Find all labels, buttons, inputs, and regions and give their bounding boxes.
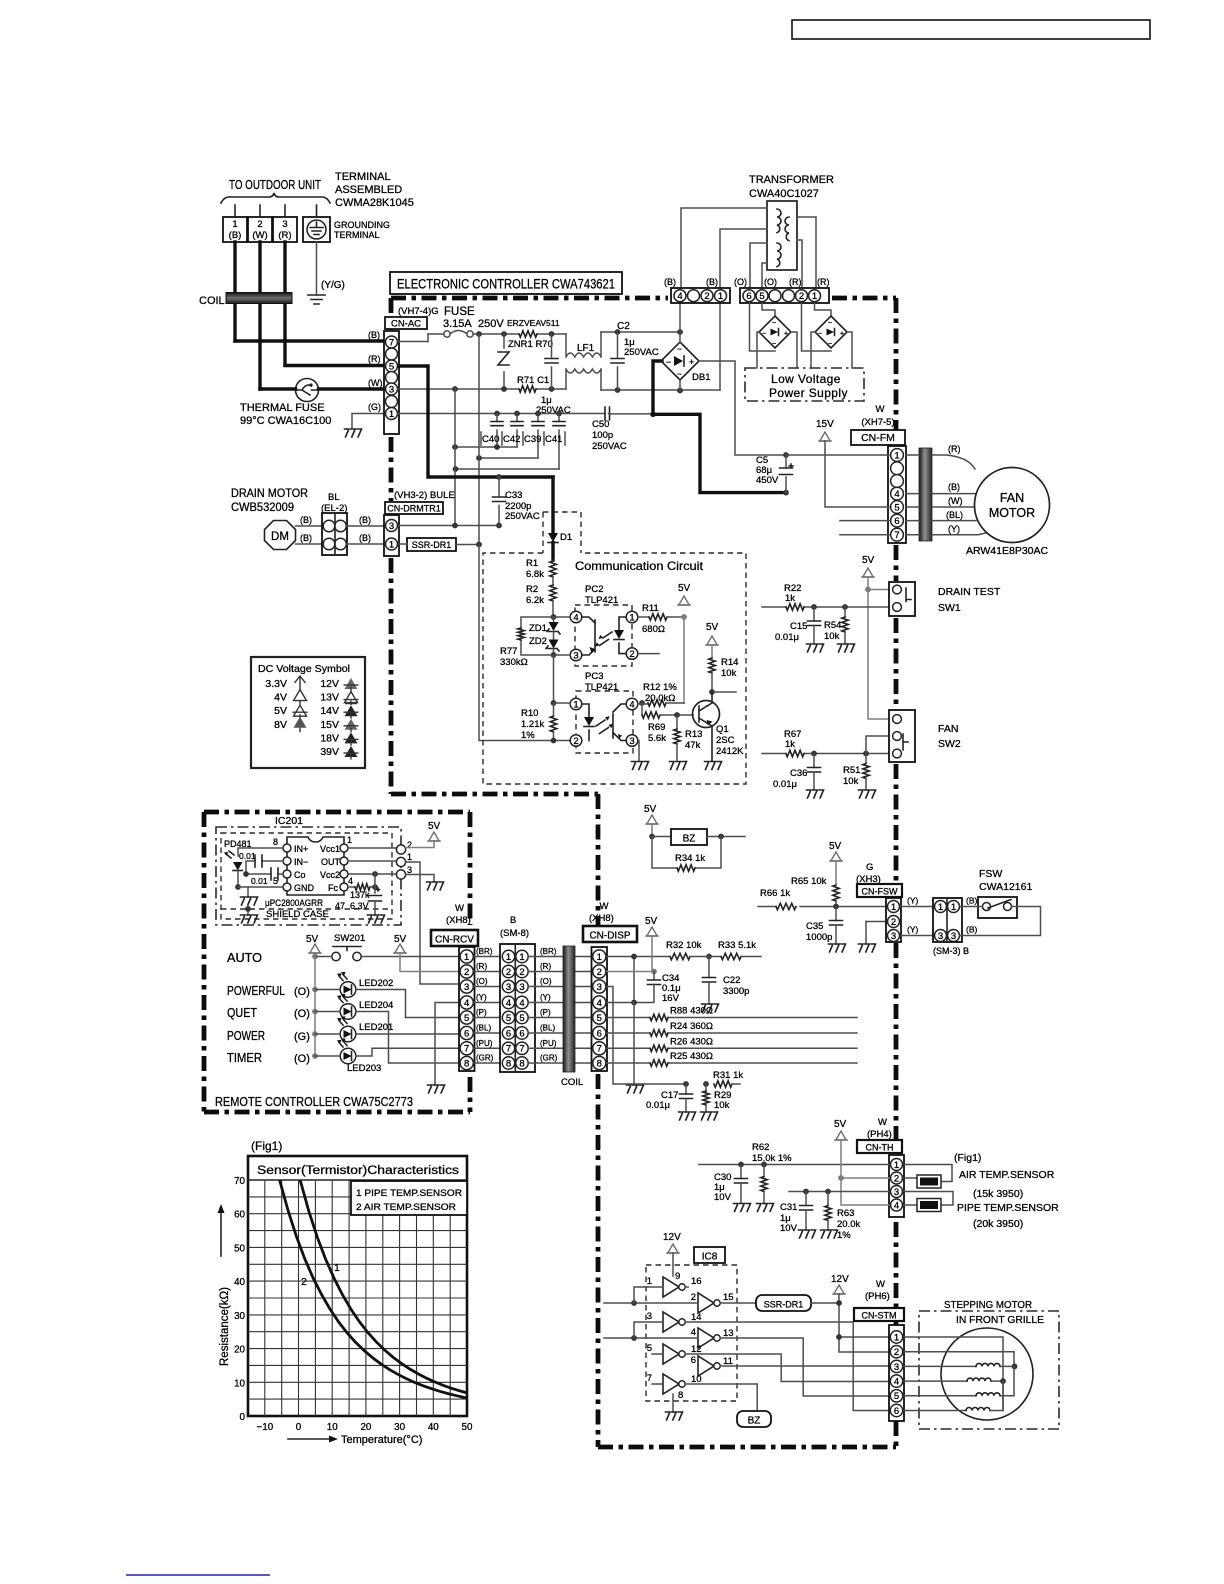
- svg-text:40: 40: [234, 1277, 245, 1288]
- node dots cap tops: [494, 411, 500, 417]
- PC2 pin1: [626, 611, 638, 623]
- svg-text:(R): (R): [476, 962, 487, 971]
- capacitor C5 (electrolytic): [785, 455, 787, 493]
- CN-AC pin 3: [386, 383, 398, 395]
- svg-text:−10: −10: [257, 1422, 274, 1433]
- svg-text:(R): (R): [278, 230, 291, 241]
- svg-text:1k: 1k: [785, 593, 795, 604]
- pin 3: [386, 520, 398, 532]
- wire PC3 pin3 to ground: [638, 741, 639, 762]
- capacitor C50: [605, 407, 610, 420]
- wire row (BL) right: [528, 1032, 592, 1034]
- ground under C31: [799, 1230, 816, 1238]
- svg-text:8: 8: [519, 1058, 524, 1069]
- resistor R25: [650, 1060, 668, 1066]
- PC2 LED: [619, 617, 626, 654]
- node dot R51/SW2: [863, 751, 869, 757]
- node dot R54: [842, 604, 848, 610]
- wire terminal3 (R) down: [283, 242, 286, 365]
- svg-text:5V: 5V: [862, 555, 875, 566]
- wire row (P) left: [474, 1017, 502, 1019]
- node dot Q1 collector: [709, 689, 715, 695]
- svg-text:3: 3: [282, 219, 287, 230]
- resistor R29: [705, 1084, 707, 1091]
- CN-FSW label box: [857, 884, 902, 897]
- PC3 LED: [582, 704, 589, 741]
- svg-text:R1: R1: [526, 558, 538, 569]
- PC2 pin4: [570, 611, 582, 623]
- svg-text:G: G: [866, 862, 873, 873]
- svg-text:C15: C15: [790, 621, 807, 632]
- node dot C1 top: [549, 331, 555, 337]
- wires BL to CN-DRMTR1: [347, 526, 385, 544]
- svg-text:+: +: [840, 331, 844, 338]
- svg-text:Vcc2: Vcc2: [320, 870, 340, 880]
- svg-text:450V: 450V: [756, 475, 779, 486]
- node dot C5 top: [783, 452, 789, 458]
- SM-8 pins row 2: [502, 965, 514, 977]
- capacitor C31: [805, 1192, 807, 1206]
- PC2 pin3: [570, 649, 582, 661]
- wire row (PU) left: [474, 1047, 502, 1049]
- ground right of circle3: [427, 882, 444, 890]
- node dot C17: [683, 1081, 689, 1087]
- wire DB1+ to CN-FM pin1: [699, 361, 786, 455]
- svg-text:6: 6: [746, 291, 751, 302]
- wire chain to R10 node: [553, 655, 555, 703]
- svg-text:5: 5: [894, 1391, 899, 1402]
- communication circuit dashed box: [483, 553, 746, 784]
- svg-text:R11: R11: [642, 603, 659, 614]
- controller border right edge: [894, 298, 899, 1447]
- 5V symbol left: [310, 944, 320, 953]
- wire PC3 pin4 to R12: [638, 703, 648, 704]
- node dot row2: [651, 969, 657, 975]
- svg-text:30: 30: [234, 1311, 245, 1322]
- svg-text:R25 430Ω: R25 430Ω: [670, 1051, 713, 1062]
- svg-text:ZNR1 R70: ZNR1 R70: [508, 339, 553, 350]
- svg-text:(B): (B): [229, 230, 242, 241]
- svg-text:CN-TH: CN-TH: [866, 1143, 894, 1153]
- node dot DB1 top: [677, 329, 683, 335]
- svg-text:(B): (B): [359, 515, 371, 525]
- resistor 137k on Fc: [348, 886, 355, 888]
- svg-text:5V: 5V: [644, 804, 657, 815]
- PC2 light arrows: [600, 632, 613, 646]
- svg-text:4: 4: [506, 998, 511, 1009]
- capacitor C35: [835, 907, 837, 921]
- svg-text:(BR): (BR): [476, 947, 493, 956]
- 12V symbol: [834, 1285, 844, 1294]
- ground pin4 remote: [428, 1085, 445, 1093]
- svg-text:BL: BL: [328, 492, 340, 503]
- svg-text:R66 1k: R66 1k: [760, 888, 790, 899]
- svg-text:20.0kΩ: 20.0kΩ: [645, 693, 675, 704]
- x axis arrow: [288, 1438, 330, 1440]
- gate1 output stub: [685, 1286, 688, 1288]
- wire row2: [841, 1177, 889, 1179]
- controller border bottom-left edge: [391, 792, 598, 797]
- svg-text:R77: R77: [500, 646, 517, 657]
- svg-text:(B): (B): [300, 533, 312, 543]
- svg-text:DRAIN TEST: DRAIN TEST: [938, 586, 1001, 598]
- wire top rail to C2/DB1: [601, 331, 680, 333]
- svg-text:C22: C22: [723, 975, 740, 986]
- svg-text:15V: 15V: [816, 419, 834, 430]
- svg-text:6.3V: 6.3V: [350, 901, 369, 911]
- svg-text:3300p: 3300p: [723, 986, 749, 997]
- vertical x455 wire: [454, 389, 456, 525]
- node dot B/x479: [476, 331, 482, 337]
- svg-text:(R): (R): [368, 354, 381, 364]
- capacitor 47u 6.3V: [374, 887, 376, 893]
- wire pin1 row to R32: [607, 956, 670, 958]
- wire Vcc1 to circle2: [348, 847, 397, 849]
- wire grounding (Y/G) down: [316, 242, 318, 295]
- svg-text:4: 4: [677, 291, 682, 302]
- node dot powerful: [312, 987, 318, 993]
- wire circle1 down to CN-RCV pin3: [406, 862, 461, 984]
- svg-text:(B): (B): [368, 330, 380, 340]
- svg-text:0.01: 0.01: [239, 851, 256, 861]
- svg-text:10k: 10k: [843, 776, 859, 787]
- CN-RCV pin 6: [460, 1026, 473, 1039]
- resistor R54: [844, 607, 846, 617]
- svg-text:(B): (B): [706, 277, 718, 287]
- svg-text:2: 2: [894, 1173, 899, 1184]
- wire R67 row: [762, 753, 891, 755]
- svg-text:μPC2800AGRR: μPC2800AGRR: [265, 898, 323, 909]
- svg-text:15.0k 1%: 15.0k 1%: [752, 1153, 792, 1164]
- wire pin5 to coil3: [904, 1395, 976, 1397]
- CN-AC pin 5: [386, 360, 398, 372]
- zener ZD2: [553, 632, 555, 640]
- svg-text:2: 2: [799, 291, 804, 302]
- svg-text:7: 7: [647, 1373, 652, 1384]
- ground under grounding terminal: [308, 295, 325, 304]
- svg-text:B: B: [510, 915, 516, 926]
- svg-text:1.21k: 1.21k: [521, 719, 544, 730]
- svg-text:(W): (W): [948, 496, 963, 506]
- PC3 phototransistor: [613, 704, 626, 741]
- PC3 pin3: [626, 735, 638, 747]
- CN-RCV pin 4: [460, 996, 473, 1009]
- IC8 label box: [694, 1247, 725, 1263]
- wire pin4 to ground: [435, 1003, 460, 1086]
- wire powerful row: [315, 990, 406, 1018]
- input wire gates 1,2: [604, 1302, 698, 1304]
- svg-text:SW1: SW1: [938, 602, 961, 614]
- svg-text:10: 10: [234, 1378, 245, 1389]
- svg-text:5V: 5V: [274, 705, 287, 717]
- chip pins left: [283, 844, 291, 852]
- svg-text:TERMINAL: TERMINAL: [335, 171, 391, 183]
- svg-text:1: 1: [894, 450, 899, 461]
- svg-text:(B): (B): [359, 533, 371, 543]
- svg-text:1: 1: [519, 952, 524, 963]
- svg-text:(BR): (BR): [540, 947, 557, 956]
- svg-text:250V: 250V: [478, 318, 504, 330]
- CN-DISP pin 6: [593, 1026, 606, 1039]
- svg-text:DC Voltage Symbol: DC Voltage Symbol: [258, 663, 350, 675]
- svg-text:PIPE TEMP.SENSOR: PIPE TEMP.SENSOR: [957, 1202, 1059, 1214]
- svg-text:POWERFUL: POWERFUL: [227, 984, 285, 998]
- CN-RCV label box: [431, 930, 478, 946]
- svg-text:50: 50: [462, 1422, 473, 1433]
- svg-text:(Y): (Y): [907, 925, 919, 935]
- svg-text:47: 47: [335, 901, 345, 911]
- wire node to PC2 pin3: [554, 654, 571, 656]
- svg-text:6: 6: [506, 1028, 511, 1039]
- wire R1-R2: [552, 577, 554, 585]
- svg-text:SW201: SW201: [334, 933, 365, 944]
- capacitor 0.01 (Co): [246, 873, 283, 875]
- labels C40 C42 C39 C41: [481, 432, 565, 445]
- resistor R51: [865, 754, 867, 764]
- node dot timer: [312, 1053, 318, 1059]
- svg-text:10k: 10k: [714, 1100, 730, 1111]
- svg-text:TRANSFORMER: TRANSFORMER: [749, 174, 834, 186]
- svg-text:1k: 1k: [785, 739, 795, 750]
- CN-AC connector column: [384, 331, 399, 434]
- chip pins right: [340, 844, 348, 852]
- node dot C1 bottom: [549, 386, 555, 392]
- ground under R29: [701, 1112, 718, 1120]
- svg-text:(W): (W): [252, 230, 267, 241]
- 15V symbol: [820, 432, 830, 441]
- wire pin3 long to R31 row: [607, 987, 686, 1085]
- gray rail down to SW2: [868, 590, 891, 720]
- LED LED201: [340, 1026, 356, 1042]
- CN-DISP pin 8: [593, 1056, 606, 1069]
- CN-RCV pin 1: [460, 950, 473, 963]
- ground under C15: [807, 644, 824, 652]
- wire (B) row to CN-AC pin7: [235, 339, 385, 342]
- ground under C17: [679, 1112, 696, 1120]
- svg-text:1: 1: [894, 1332, 899, 1343]
- pin 1: [386, 538, 398, 550]
- svg-text:0: 0: [296, 1422, 302, 1433]
- coil W4: [966, 1408, 990, 1411]
- node dot BZ left: [649, 834, 655, 840]
- svg-text:1: 1: [464, 952, 469, 963]
- svg-text:R32 10k: R32 10k: [666, 940, 702, 951]
- wire row (GR) left: [474, 1062, 502, 1064]
- SM-8 connector block: [500, 944, 535, 1072]
- LED LED203: [340, 1048, 356, 1064]
- capacitor C42: [516, 414, 518, 448]
- svg-text:R2: R2: [526, 584, 538, 595]
- svg-text:Sensor(Termistor)Characteristi: Sensor(Termistor)Characteristics: [257, 1165, 459, 1177]
- wire row (GR) right: [528, 1062, 592, 1064]
- inverter gate 4/13: [698, 1328, 714, 1348]
- wire pin6 down to left bridge: [750, 303, 776, 351]
- svg-text:12V: 12V: [320, 678, 339, 690]
- svg-text:2: 2: [891, 917, 896, 928]
- CN-FSW connector column: [886, 898, 901, 942]
- svg-text:ARW41E8P30AC: ARW41E8P30AC: [966, 545, 1049, 557]
- terminal 3 (R): [273, 217, 297, 242]
- svg-text:12V: 12V: [663, 1232, 681, 1243]
- svg-text:(SM-8): (SM-8): [500, 928, 529, 939]
- svg-text:(15k 3950): (15k 3950): [973, 1188, 1023, 1200]
- svg-text:47k: 47k: [685, 740, 701, 751]
- svg-text:(Fig1): (Fig1): [251, 1139, 282, 1153]
- DRAIN TEST SW1 box: [889, 582, 915, 616]
- svg-text:3.3V: 3.3V: [265, 678, 287, 690]
- wire row (Y) right: [528, 1002, 592, 1004]
- resistor R66: [776, 903, 796, 909]
- small bridge rectifier left: [759, 316, 791, 348]
- resistor R11: [638, 616, 649, 618]
- svg-text:FUSE: FUSE: [444, 306, 475, 318]
- IC8 dashed box: [646, 1265, 737, 1401]
- svg-text:2: 2: [301, 1276, 307, 1288]
- svg-text:680Ω: 680Ω: [642, 624, 665, 635]
- svg-text:4: 4: [348, 876, 353, 886]
- svg-text:5: 5: [759, 291, 764, 302]
- node dot AUTO 5V: [312, 954, 318, 960]
- wire (G) row from pin1 to ground: [352, 414, 385, 429]
- svg-text:(O): (O): [476, 977, 488, 986]
- svg-text:LED202: LED202: [359, 978, 393, 989]
- svg-text:3: 3: [597, 982, 602, 993]
- svg-text:+: +: [689, 357, 694, 367]
- CN-STM pin 1: [890, 1331, 902, 1343]
- svg-text:3: 3: [894, 1362, 899, 1373]
- wire row (PU) right: [528, 1047, 592, 1049]
- CN-FM connector column: [888, 446, 906, 543]
- svg-text:W: W: [876, 404, 885, 415]
- svg-text:FAN: FAN: [1000, 491, 1024, 505]
- node dot C5 bottom: [783, 490, 789, 496]
- remote controller dash-dot border: [204, 812, 470, 1112]
- svg-text:(XH8): (XH8): [589, 913, 614, 924]
- svg-text:C31: C31: [780, 1202, 797, 1213]
- svg-text:Resistance(kΩ): Resistance(kΩ): [219, 1287, 231, 1366]
- thick wire down to D1 chain: [551, 477, 554, 533]
- svg-text:7: 7: [894, 530, 899, 541]
- node dot C2 top: [615, 329, 621, 335]
- svg-text:(VH7-4)G: (VH7-4)G: [398, 306, 439, 317]
- controller border left edge: [389, 298, 394, 794]
- svg-text:−: −: [818, 331, 822, 338]
- transistor Q1: [693, 701, 720, 728]
- svg-text:~: ~: [677, 345, 682, 354]
- svg-text:R65 10k: R65 10k: [791, 876, 827, 887]
- wires through bar to fan motor: [906, 455, 994, 535]
- SM-8 pins row 6: [502, 1027, 514, 1039]
- wire row3: [789, 1191, 889, 1193]
- svg-text:70: 70: [234, 1176, 245, 1187]
- svg-text:4: 4: [894, 1200, 899, 1211]
- inverter gate 6/11: [698, 1356, 714, 1376]
- svg-text:(Y): (Y): [907, 896, 919, 906]
- svg-text:5V: 5V: [706, 622, 719, 633]
- svg-text:2: 2: [519, 967, 524, 978]
- wire row8: [607, 1062, 857, 1064]
- svg-text:R69: R69: [648, 722, 665, 733]
- svg-text:~: ~: [772, 341, 776, 348]
- top right empty box: [792, 20, 1150, 39]
- wire FSW right loop to row3: [960, 907, 1041, 936]
- ground under C30: [734, 1204, 751, 1212]
- svg-text:(B): (B): [966, 896, 978, 906]
- thick wire G node to CN-FM pin4: [653, 414, 786, 492]
- svg-text:R33 5.1k: R33 5.1k: [718, 940, 756, 951]
- svg-text:4: 4: [894, 489, 899, 500]
- ground on (G) wire: [345, 429, 362, 437]
- wire SW2 middle contact loop: [866, 736, 891, 754]
- node dot 5V SW1: [865, 587, 871, 593]
- svg-text:0.01μ: 0.01μ: [773, 779, 797, 790]
- node dot C2 bottom: [615, 387, 621, 393]
- SM-3 connector block: [933, 898, 962, 942]
- svg-text:250VAC: 250VAC: [592, 441, 627, 452]
- wire transformer secondary to pin2 right (R): [797, 240, 802, 288]
- svg-text:8: 8: [506, 1058, 511, 1069]
- svg-text:(R): (R): [789, 277, 802, 287]
- wire pin3 to coil1: [904, 1365, 976, 1367]
- CN-TH pin3: [891, 1186, 903, 1198]
- node dot Vcc2/Fc: [372, 871, 378, 877]
- svg-text:STEPPING MOTOR: STEPPING MOTOR: [944, 1299, 1032, 1311]
- svg-text:3: 3: [519, 982, 524, 993]
- CN-DISP pin 1: [593, 950, 606, 963]
- svg-text:−: −: [762, 331, 766, 338]
- wire 5V to row2: [651, 936, 653, 972]
- capacitor C34: [653, 972, 655, 980]
- svg-text:CWA40C1027: CWA40C1027: [749, 188, 819, 200]
- node dot row2 5V: [838, 1175, 844, 1181]
- air sensor loop: [904, 1165, 952, 1182]
- svg-text:R12 1%: R12 1%: [643, 682, 677, 693]
- wire gate3 out to pin6: [685, 1322, 889, 1411]
- choke LF1 top winding: [566, 332, 601, 357]
- stub wire right of Q1: [712, 691, 736, 693]
- svg-text:12V: 12V: [831, 1274, 849, 1285]
- ground under PC3: [632, 762, 649, 770]
- wire row7: [607, 1047, 857, 1049]
- resistor R63 vertical: [827, 1192, 829, 1206]
- svg-text:(O): (O): [734, 277, 747, 287]
- wire pin3 to SM-3: [901, 935, 934, 937]
- svg-text:(Y/G): (Y/G): [321, 280, 345, 291]
- resistor R22: [786, 604, 804, 610]
- svg-text:5: 5: [464, 1013, 469, 1024]
- thick wire DB1- down to G node: [653, 361, 662, 414]
- node dot R11/5V: [681, 614, 687, 620]
- svg-text:IN+: IN+: [294, 844, 308, 854]
- wire 15V to pin5: [825, 441, 889, 507]
- capacitor C22: [708, 957, 710, 978]
- node dot R13 top: [674, 712, 680, 718]
- PC3 light arrows: [596, 720, 609, 734]
- harness gradient bar (fan): [919, 448, 932, 541]
- wire row (R) left: [474, 971, 502, 973]
- svg-text:1: 1: [573, 699, 578, 710]
- svg-text:GND: GND: [294, 883, 315, 893]
- svg-text:250VAC: 250VAC: [624, 347, 659, 358]
- svg-text:CWA12161: CWA12161: [979, 881, 1032, 893]
- svg-text:(BL): (BL): [476, 1024, 491, 1033]
- svg-text:2: 2: [407, 840, 412, 850]
- svg-text:10V: 10V: [780, 1223, 798, 1234]
- wire transformer secondary to pin1 right (R): [797, 217, 816, 288]
- svg-text:1: 1: [506, 952, 511, 963]
- 5V rail to row2/row4: [841, 1140, 889, 1205]
- wire quet row: [315, 1012, 461, 1064]
